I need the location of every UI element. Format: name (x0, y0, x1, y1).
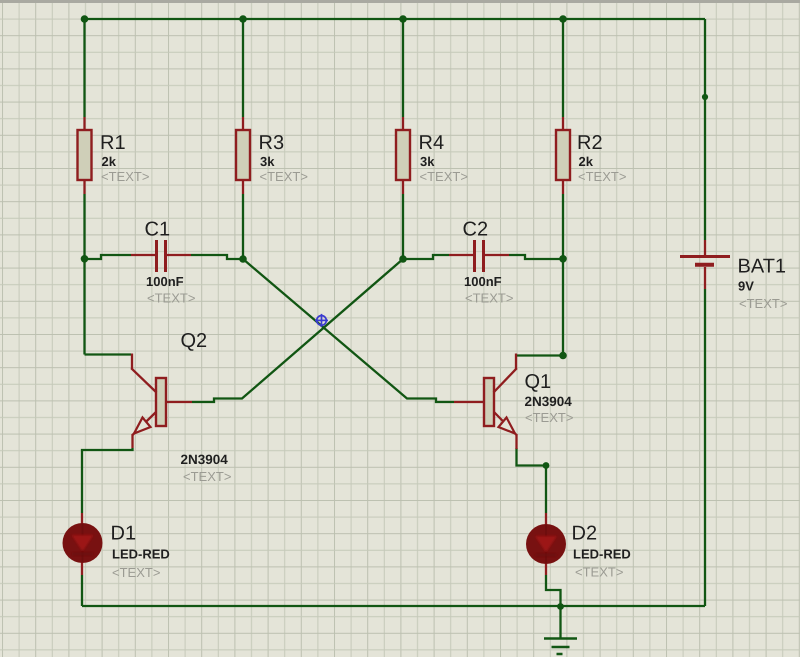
svg-text:3k: 3k (420, 154, 435, 169)
wire column R1 upper (83, 19, 85, 117)
node C1 left (81, 255, 89, 263)
svg-text:LED-RED: LED-RED (573, 547, 631, 562)
svg-text:D2: D2 (572, 523, 598, 545)
wire column R4 upper (402, 19, 404, 117)
LED D1 (63, 513, 103, 575)
svg-text:R3: R3 (259, 132, 285, 154)
svg-text:R4: R4 (419, 132, 445, 154)
node C2 right (559, 255, 567, 263)
svg-text:<TEXT>: <TEXT> (420, 169, 468, 184)
wire diagonal R4 to Q2 base (192, 259, 403, 402)
svg-text:C2: C2 (463, 219, 489, 241)
wire bottom rail (82, 605, 705, 607)
svg-text:<TEXT>: <TEXT> (578, 169, 626, 184)
wire column R1 lower (83, 194, 85, 355)
svg-text:<TEXT>: <TEXT> (739, 296, 787, 311)
wire column R4 lower (402, 194, 404, 259)
capacitor C2 (449, 240, 509, 272)
node ground rail (557, 603, 564, 610)
svg-text:R2: R2 (577, 132, 603, 154)
wire Q1 emitter (517, 448, 547, 513)
node top-left (81, 15, 89, 23)
svg-text:R1: R1 (100, 132, 126, 154)
svg-text:Q1: Q1 (525, 371, 552, 393)
svg-text:C1: C1 (145, 219, 171, 241)
resistor R3 (236, 117, 250, 194)
svg-text:<TEXT>: <TEXT> (183, 469, 231, 484)
svg-text:2k: 2k (579, 154, 594, 169)
wire column R2 lower (562, 194, 564, 356)
svg-text:100nF: 100nF (464, 274, 502, 289)
node Q1 collector / R2 (559, 352, 567, 360)
transistor Q2 (131, 354, 192, 449)
wire D1 to rail (81, 575, 83, 606)
svg-text:3k: 3k (260, 154, 275, 169)
wire Q1 collector (516, 354, 563, 356)
svg-text:<TEXT>: <TEXT> (465, 291, 513, 306)
svg-text:9V: 9V (738, 279, 754, 294)
svg-text:<TEXT>: <TEXT> (101, 169, 149, 184)
svg-text:2N3904: 2N3904 (181, 452, 229, 467)
svg-text:2k: 2k (102, 154, 117, 169)
wire C1 left (85, 255, 132, 259)
svg-text:Q2: Q2 (181, 330, 208, 352)
wire diagonal R3 to Q1 base (243, 259, 454, 402)
wire Q2 emitter to D1 (82, 448, 133, 513)
transistor Q1 (454, 354, 517, 450)
svg-text:<TEXT>: <TEXT> (260, 169, 308, 184)
node origin marker (315, 314, 328, 327)
wire column R2 upper (562, 19, 564, 117)
resistor R1 (78, 117, 92, 194)
svg-text:<TEXT>: <TEXT> (525, 410, 573, 425)
wire C2 right (509, 255, 563, 259)
wire battery column (704, 19, 706, 240)
svg-text:<TEXT>: <TEXT> (575, 565, 623, 580)
node C2 left (399, 255, 407, 263)
wire battery bottom (704, 289, 706, 606)
wire top rail (85, 18, 706, 20)
ground (544, 606, 577, 654)
svg-text:<TEXT>: <TEXT> (147, 291, 195, 306)
svg-text:BAT1: BAT1 (738, 256, 787, 278)
node top R4 (399, 15, 407, 23)
capacitor C1 (131, 240, 191, 272)
resistor R4 (396, 117, 410, 194)
node top R3 (239, 15, 247, 23)
svg-text:<TEXT>: <TEXT> (112, 565, 160, 580)
node C1 right (239, 255, 247, 263)
wire column R3 lower (242, 194, 244, 259)
svg-text:LED-RED: LED-RED (112, 547, 170, 562)
battery BAT1 (680, 240, 730, 289)
wire D2 to ground rail (546, 575, 561, 606)
resistor R2 (556, 117, 570, 194)
node Q1 emitter / D2 (543, 462, 550, 469)
wire column R3 upper (242, 19, 244, 117)
svg-text:D1: D1 (111, 523, 137, 545)
wire C2 left (403, 255, 449, 259)
node battery column joint (702, 94, 708, 100)
LED D2 (526, 513, 566, 575)
wire C1 right (191, 255, 243, 259)
svg-text:2N3904: 2N3904 (525, 394, 573, 409)
svg-text:100nF: 100nF (146, 274, 184, 289)
wire Q2 collector (85, 353, 132, 355)
node top R2 (559, 15, 567, 23)
